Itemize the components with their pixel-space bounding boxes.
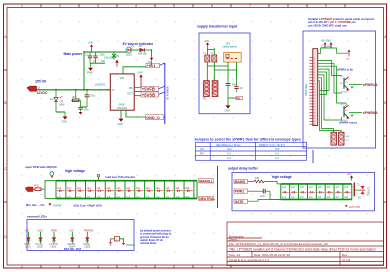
svg-text:+5VPW: +5VPW (53, 204, 62, 208)
junction dots (55, 49, 152, 91)
global label NEUTRAL right (199, 196, 216, 201)
power flag +5V buffer (347, 173, 353, 181)
svg-text:5: 5 (173, 265, 175, 269)
svg-text:Sheet: /: Sheet: / (229, 238, 240, 242)
pin stub U1 top right with power flag (134, 72, 143, 88)
svg-text:+5V1: +5V1 (147, 64, 156, 68)
svg-text:LED5: LED5 (85, 246, 91, 248)
svg-text:PWROK: PWROK (126, 244, 135, 247)
svg-text:Id: 1/1: Id: 1/1 (342, 258, 351, 262)
frame column ticks top (41, 4, 345, 8)
LED D2 indicator (126, 45, 134, 56)
svg-text:PWROK: PWROK (84, 229, 94, 232)
svg-text:15V IN: 15V IN (35, 80, 46, 84)
connector output screw block B (339, 132, 351, 145)
power flag +5V at IC top (115, 60, 119, 67)
svg-text:pin 18-25: GND (PC side) use: pin 18-25: GND (PC side) use (308, 23, 347, 27)
svg-text:GATE: GATE (235, 200, 245, 204)
wire 15V input rail (37, 89, 111, 91)
svg-text:2-4: 2-4 (275, 156, 279, 160)
svg-text:9: 9 (325, 4, 327, 8)
resistor R20 (248, 177, 281, 184)
title block outline (227, 222, 384, 266)
global label +5VOUT (141, 92, 159, 97)
svg-text:6: 6 (211, 265, 213, 269)
wire main power rail (84, 51, 127, 53)
svg-text:2: 2 (59, 265, 61, 269)
svg-text:supply transformer input: supply transformer input (197, 25, 238, 29)
svg-text:100u: 100u (90, 95, 96, 98)
global label GND_OUT (146, 115, 164, 120)
svg-text:BC547: BC547 (341, 92, 348, 94)
svg-text:12VDC: 12VDC (37, 91, 48, 95)
wire down to gnd (227, 98, 229, 105)
power flags above connector (321, 40, 333, 48)
capacitor CX mains (226, 81, 238, 98)
svg-text:GND: GND (62, 120, 68, 123)
global label +5VFB (141, 86, 159, 91)
svg-text:LED3: LED3 (51, 246, 57, 248)
svg-text:Size: A4: Size: A4 (229, 253, 240, 257)
triac Q20 right (354, 183, 370, 200)
svg-text:DIRECT 4 Ch / 30-57n: DIRECT 4 Ch / 30-57n (259, 143, 286, 147)
svg-text:TRIAC1: TRIAC1 (367, 186, 371, 196)
wire PE run (228, 97, 236, 99)
svg-text:xPWR1A: xPWR1A (363, 83, 378, 87)
svg-text:5408: 5408 (59, 104, 65, 107)
svg-text:PE: PE (236, 96, 240, 100)
capacitor C20 (248, 189, 281, 200)
ground GND4 (225, 105, 231, 112)
buffer ladder cells (281, 184, 352, 200)
capacitor C5 (78, 100, 89, 114)
svg-text:100n: 100n (260, 195, 266, 198)
capacitor C2 (93, 52, 98, 63)
power flag +5V down (147, 56, 153, 64)
LED lamp 5 (83, 229, 94, 248)
svg-text:PWR: PWR (51, 229, 57, 232)
table jumpers grid (196, 142, 307, 160)
fuse F1 (203, 53, 210, 62)
svg-text:outside flows: outside flows (140, 241, 157, 245)
bus power vertical (164, 63, 166, 124)
diode D3 (138, 45, 147, 55)
svg-text:100n: 100n (84, 108, 90, 111)
fuse F2 (211, 53, 217, 62)
global label MAINS input (234, 179, 248, 184)
note LPT title lines (308, 17, 375, 28)
note default power note (140, 229, 172, 245)
svg-text:+5VFB: +5VFB (142, 86, 155, 91)
svg-text:MAINS.L: MAINS.L (199, 179, 213, 183)
resistor R1 (71, 90, 81, 102)
LED lamp 1 (25, 229, 32, 248)
svg-text:5: 5 (173, 4, 175, 8)
svg-text:GND: GND (118, 123, 124, 126)
svg-text:safety barrier: safety barrier (223, 46, 238, 49)
global label bank left (25, 187, 33, 192)
svg-text:+15V: +15V (88, 42, 94, 45)
svg-text:Min. Vac: ~ 17s: Min. Vac: ~ 17s (26, 203, 45, 207)
svg-text:LPT: LPT (345, 140, 350, 142)
wire U1 top pin to +5V label rail (123, 67, 146, 74)
svg-text:Title: LPT/DB25 parallel port: Title: LPT/DB25 parallel port 8 channel … (229, 248, 376, 252)
svg-text:LED1: LED1 (25, 246, 31, 248)
svg-text:xPWR8A: xPWR8A (363, 111, 378, 115)
ground GND2 (62, 112, 68, 123)
LED lamp 2 (36, 229, 44, 248)
svg-text:2N: 2N (340, 83, 343, 85)
wire gate run (248, 199, 281, 201)
svg-text:3: 3 (97, 4, 99, 8)
transistor Q3 (340, 76, 354, 94)
svg-text:Rev:: Rev: (342, 253, 348, 257)
global label GATE low (234, 199, 248, 204)
svg-text:OUT: OUT (345, 136, 350, 138)
svg-text:xPWR1 to 8a: xPWR1 to 8a (337, 68, 353, 72)
svg-text:Date: 2021-05-30 22:41:18: Date: 2021-05-30 22:41:18 (254, 253, 290, 257)
power flag VAC (204, 40, 210, 48)
svg-text:PWR1: PWR1 (235, 190, 245, 194)
block frame supply transformer (199, 33, 250, 114)
connector output screw block A (331, 132, 337, 150)
svg-text:BAT 100 - BAT: BAT 100 - BAT (64, 248, 81, 251)
svg-text:2-4: 2-4 (275, 151, 279, 155)
svg-text:+5V: +5V (69, 229, 74, 232)
resistor R ladder input (33, 185, 45, 191)
svg-text:450: 450 (101, 60, 106, 63)
svg-text:KiCad E.D.A. eeschema 5.1.9: KiCad E.D.A. eeschema 5.1.9 (229, 258, 269, 262)
svg-text:OUT: OUT (127, 92, 133, 96)
bus vertical mid (217, 166, 219, 208)
wire LED to diode (132, 49, 140, 51)
jumper JP1 orange box (224, 53, 242, 63)
svg-text:LED2: LED2 (37, 246, 43, 248)
svg-text:JP2: JP2 (200, 151, 205, 155)
svg-text:8: 8 (287, 4, 289, 8)
svg-text:RV: RV (116, 55, 120, 58)
ground GND3 (118, 119, 124, 126)
wires LPT data bundle (318, 48, 348, 132)
table jumpers text (200, 143, 286, 160)
capacitor C3 values (100, 54, 115, 63)
svg-text:MAINS: MAINS (235, 180, 246, 184)
svg-text:5V POWER: 5V POWER (166, 86, 170, 100)
capacitor C1 (85, 52, 92, 63)
svg-text:4: 4 (135, 4, 137, 8)
global label PE (236, 96, 243, 100)
svg-text:NEUTRAL: NEUTRAL (199, 197, 215, 201)
svg-text:+15V: +15V (204, 40, 210, 43)
svg-text:output delay buffer: output delay buffer (228, 166, 259, 170)
svg-text:R10: R10 (35, 185, 40, 188)
svg-text:1N4148: 1N4148 (138, 53, 147, 56)
svg-text:GND_O: GND_O (146, 116, 160, 120)
svg-text:LED1: LED1 (126, 53, 133, 56)
svg-text:GND: GND (225, 110, 231, 113)
svg-text:+5V: +5V (25, 229, 30, 232)
svg-text:FB: FB (129, 86, 133, 90)
net flag P1 teal circle (50, 172, 54, 178)
svg-text:7: 7 (249, 4, 251, 8)
power flag ladder top (97, 174, 100, 180)
svg-text:external LEDs: external LEDs (27, 214, 47, 218)
transistor Q4 (341, 104, 354, 122)
wire ladder feed (45, 181, 56, 199)
frame row ticks right (384, 70, 388, 202)
bus entry hooks mid (159, 86, 165, 94)
power flag +15V (88, 42, 94, 52)
LED lamp 3 (50, 229, 59, 248)
wire riser to main power rail (83, 52, 85, 90)
capacitor C4 (81, 90, 96, 107)
svg-text:+5VSB: +5VSB (142, 92, 155, 97)
svg-text:VIN: VIN (120, 76, 125, 80)
svg-text:JP1: JP1 (200, 147, 205, 151)
svg-text:4: 4 (135, 265, 137, 269)
SSR ladder cells (triac snubber bank) (56, 181, 197, 199)
connector J1 pin stubs (309, 58, 313, 125)
transformer secondary T1 (212, 81, 218, 97)
svg-text:high voltage: high voltage (272, 175, 292, 179)
svg-text:Jumpers to select the xPWR1 fl: Jumpers to select the xPWR1 flow for dif… (194, 137, 301, 141)
wire diode to corner (144, 50, 151, 56)
wire bottom gnd run to label (126, 110, 146, 117)
global label PWR mid (234, 189, 248, 194)
IC U1 LM2576 body (95, 74, 134, 110)
pin stub U1 input (107, 89, 110, 91)
connector J1 pin numbers (313, 57, 316, 126)
block frame output delay buffer (232, 172, 375, 210)
ground GND1 (87, 63, 93, 74)
svg-text:4ud: 4ud (227, 147, 232, 151)
svg-text:7u3: 7u3 (275, 147, 280, 151)
svg-text:+5VF: +5VF (137, 72, 143, 75)
wire U1 bottom to gnd (120, 110, 122, 118)
svg-text:HOT PIN: HOT PIN (349, 205, 360, 209)
transformer primary T1 (202, 81, 209, 101)
svg-text:R21: R21 (255, 177, 260, 180)
wire U1 FB pin (134, 91, 141, 93)
svg-text:VI: VI (112, 88, 115, 92)
svg-text:(Ch) Cox: <40pF n/Ch: (Ch) Cox: <40pF n/Ch (74, 204, 103, 208)
block frame external LEDs (27, 220, 134, 251)
svg-text:File: LPT8x230VAC_v1_2021-05-3: File: LPT8x230VAC_v1_2021-05-30_r2.sch K… (229, 242, 328, 246)
svg-text:DB25 Male: DB25 Male (305, 83, 308, 96)
svg-text:Rs4: Rs4 (185, 197, 190, 199)
note hot pin red (345, 205, 360, 209)
svg-text:ON/OFF: ON/OFF (117, 106, 128, 110)
svg-text:6: 6 (211, 4, 213, 8)
jumper PWROK symbol (109, 237, 136, 247)
wire Q4 to label (349, 112, 362, 114)
svg-text:xPWR8 source: xPWR8 source (339, 120, 358, 124)
frame column ticks bottom (41, 265, 231, 269)
buffer ladder rails (281, 184, 352, 200)
svg-text:3: 3 (97, 265, 99, 269)
varistor RV1 (112, 52, 119, 60)
frame row ticks left (4, 70, 8, 202)
wire Q3 to label (349, 83, 362, 85)
wire to +5V label (151, 60, 153, 65)
bus entry hook bottom (164, 117, 165, 124)
svg-text:high voltage: high voltage (65, 169, 85, 173)
global label +5V top (146, 63, 160, 68)
SSR ladder rails (56, 181, 197, 199)
title block text (229, 234, 376, 262)
capacitor CY (234, 81, 244, 92)
wires transformer top (207, 48, 236, 81)
wire U1 OUT pin (134, 95, 141, 97)
diode D1 bridge cluster (50, 90, 65, 112)
svg-text:+5V: +5V (347, 173, 352, 176)
power flag small red (49, 203, 62, 207)
svg-text:open PCB with 230VAC: open PCB with 230VAC (25, 165, 58, 169)
svg-text:2: 2 (59, 4, 61, 8)
svg-text:load zero Tefl refresher: load zero Tefl refresher (106, 175, 136, 179)
global label MAINS L right (199, 179, 214, 184)
svg-text:1: 1 (21, 4, 23, 8)
bus entry hook top (160, 63, 165, 66)
svg-text:+5V GND: +5V GND (321, 40, 332, 43)
svg-text:2-3: 2-3 (227, 151, 231, 155)
svg-text:LM2576: LM2576 (95, 83, 106, 87)
svg-text:+5V1: +5V1 (37, 229, 44, 232)
wire cap ground bus (90, 62, 105, 64)
svg-text:TR1: TR1 (202, 99, 207, 101)
connector J1 DB25 body (305, 45, 333, 125)
global label 12VDC input (27, 85, 48, 95)
svg-text:NEUTRAL/Lv / 50 Hz: NEUTRAL/Lv / 50 Hz (216, 143, 241, 147)
svg-text:Main power: Main power (64, 52, 83, 56)
svg-text:1: 1 (21, 265, 23, 269)
block frame LPT (303, 31, 376, 148)
LED lamp 4 (68, 229, 76, 248)
svg-text:PWR: PWR (87, 72, 93, 75)
svg-text:2-3: 2-3 (227, 156, 231, 160)
diode clamp cluster (346, 50, 350, 61)
